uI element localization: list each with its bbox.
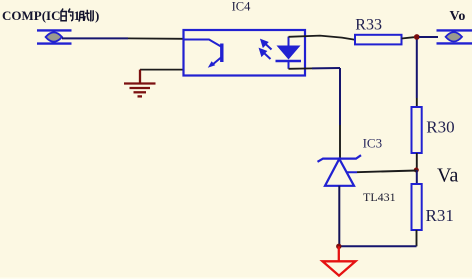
resistor R31 [412, 184, 422, 230]
wire LED cathode right [289, 67, 313, 69]
svg-text:): ) [95, 8, 99, 23]
resistor R30 [412, 107, 422, 153]
junction node Va [414, 168, 419, 173]
wire (dark segment) [339, 125, 341, 159]
svg-text:TL431: TL431 [363, 190, 396, 204]
TL431 anode wire down [338, 186, 340, 247]
bottom wire to TL431 anode [339, 245, 417, 247]
wire junction down [416, 40, 418, 99]
R33 right lead [402, 37, 415, 38]
R30 top lead [416, 98, 418, 107]
CJK glyph de [61, 9, 73, 21]
bottom edge light strip [0, 277, 472, 279]
wire down to TL431 [339, 68, 341, 125]
svg-text:Vo: Vo [450, 9, 466, 24]
ground wire [140, 69, 184, 71]
wire to port Vo [419, 36, 438, 38]
LED light arrows [260, 40, 271, 59]
wire COMP to IC4 [62, 37, 128, 39]
port COMP [37, 30, 72, 43]
CJK glyph jiao [79, 10, 94, 22]
emitter arrowhead [208, 61, 215, 68]
svg-text:R30: R30 [426, 117, 454, 136]
svg-text:COMP(IC: COMP(IC [2, 8, 61, 23]
LED anode stub [288, 37, 290, 46]
junction node Vo [414, 34, 420, 40]
wire [312, 67, 340, 69]
wire LED anode to R33 [289, 36, 356, 40]
TL431 (IC3) [318, 155, 362, 186]
R31 bottom lead [416, 230, 418, 246]
LED cathode stub [288, 61, 290, 69]
ground [124, 70, 156, 97]
optocoupler IC4 [184, 30, 306, 76]
svg-text:IC3: IC3 [363, 135, 383, 150]
LED of IC4 [277, 46, 301, 60]
phototransistor of IC4 [184, 40, 222, 66]
svg-text:R31: R31 [426, 206, 454, 225]
port Vo [437, 30, 472, 43]
resistor R33 [355, 35, 402, 45]
svg-text:Va: Va [437, 165, 459, 187]
wire (dark segment) [128, 37, 184, 39]
junction node at power ground [336, 244, 341, 249]
R30 bottom lead [416, 153, 418, 168]
TL431 ref wire [357, 171, 416, 173]
svg-text:IC4: IC4 [232, 0, 252, 14]
power ground [323, 246, 356, 275]
net label COMP(IC pin1) [2, 8, 99, 23]
svg-text:R33: R33 [355, 16, 382, 33]
wire junction to R31 [416, 170, 418, 184]
LED cathode bar [276, 60, 302, 63]
